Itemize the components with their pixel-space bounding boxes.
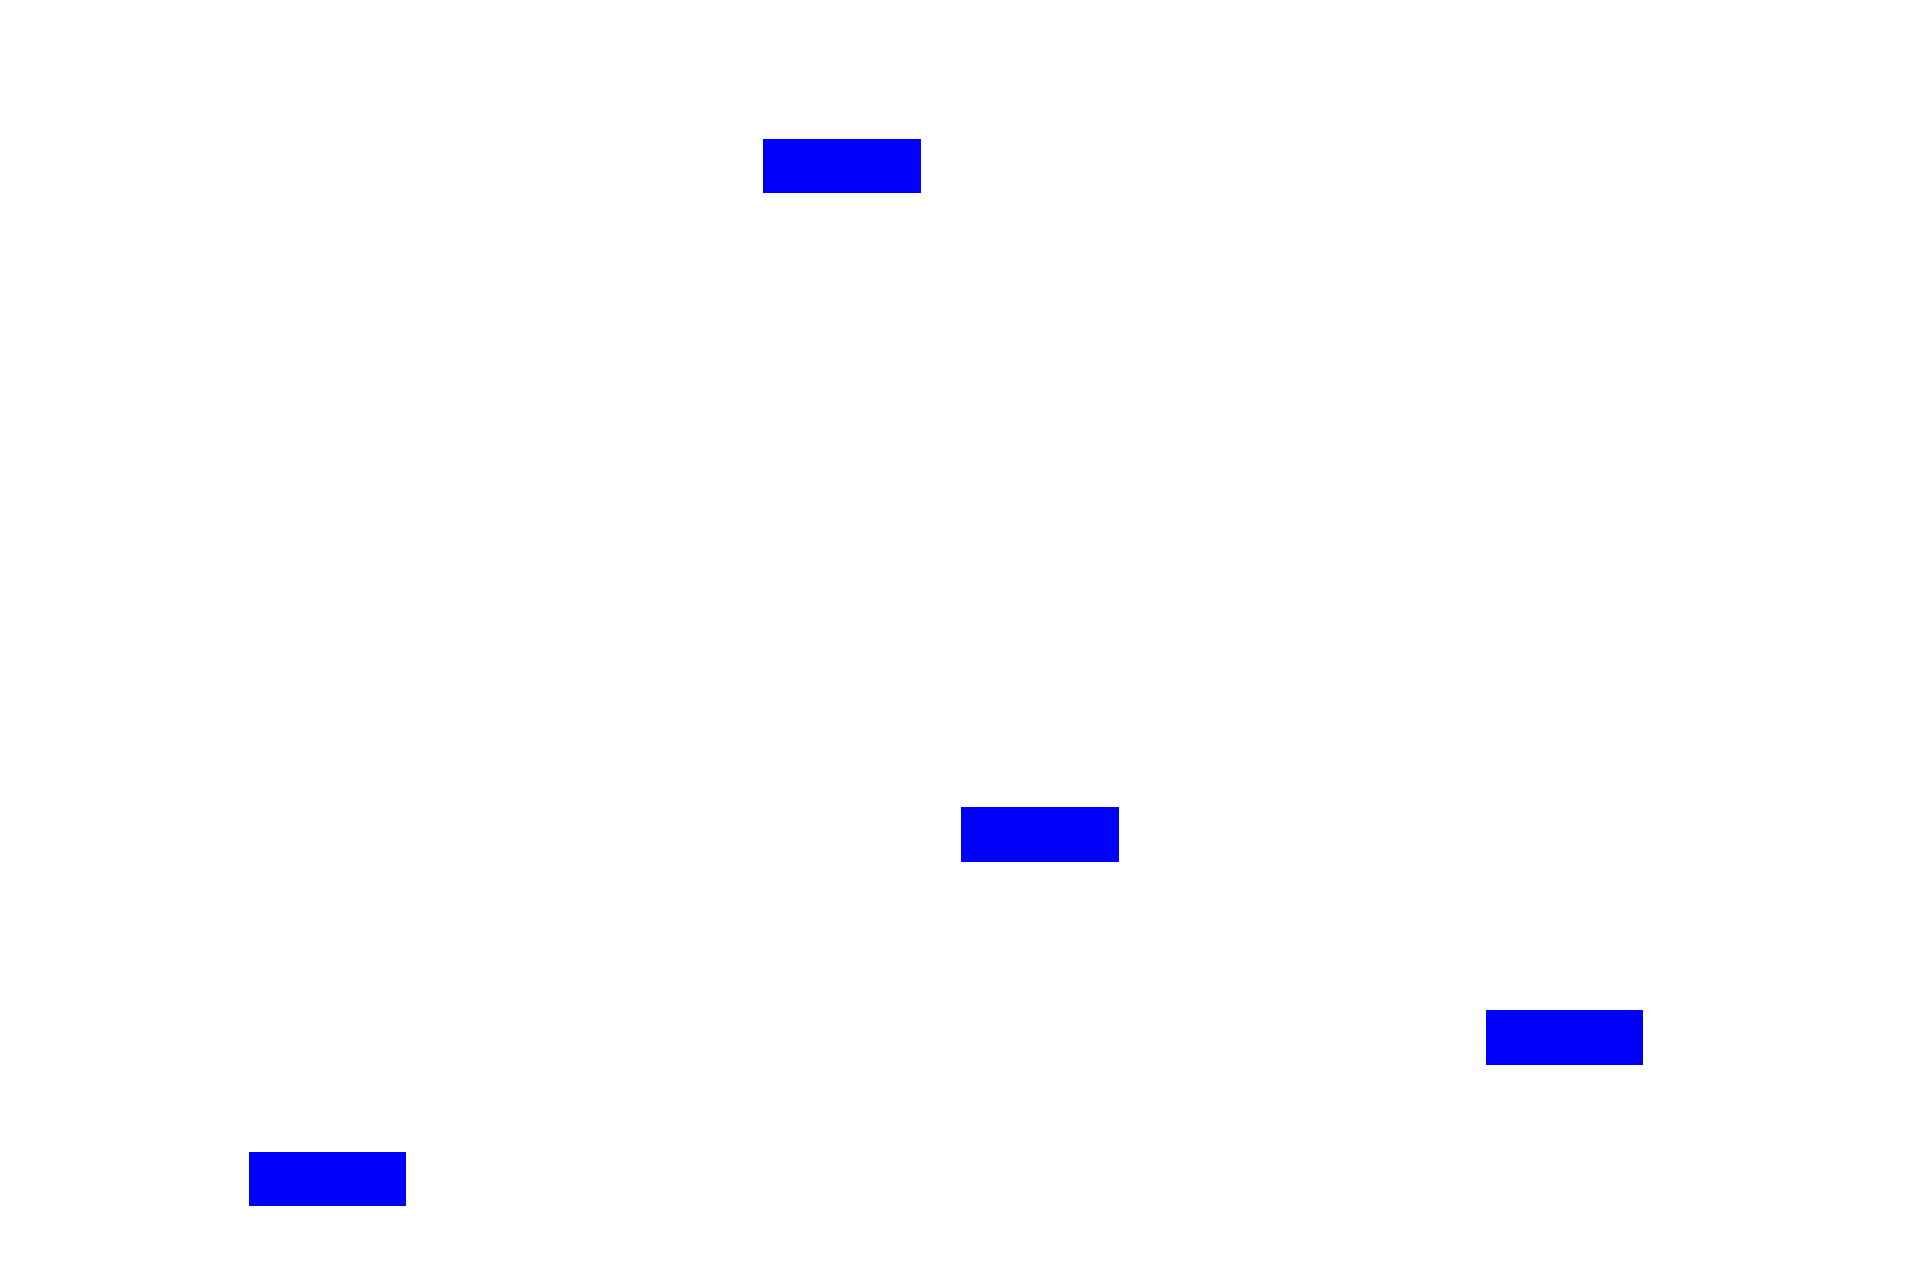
blue rectangle 3 (right lower)	[1486, 1010, 1643, 1065]
blue rectangle 1 (top center)	[763, 139, 921, 193]
blue rectangle 2 (middle center)	[961, 807, 1119, 862]
blue rectangle 4 (bottom left)	[249, 1152, 406, 1206]
